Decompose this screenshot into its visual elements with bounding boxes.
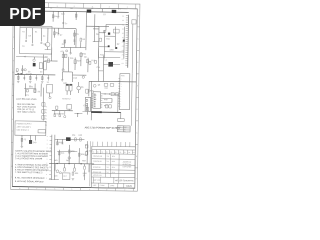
svg-text:A1: A1	[122, 45, 124, 48]
svg-text:B1: B1	[124, 131, 126, 133]
svg-text:SIZE: SIZE	[93, 185, 97, 187]
svg-text:C9: C9	[76, 34, 78, 36]
svg-text:FSCM: FSCM	[100, 185, 105, 187]
svg-text:Q4: Q4	[84, 56, 87, 58]
svg-text:C1: C1	[16, 71, 18, 73]
svg-text:R8: R8	[82, 39, 84, 41]
svg-text:1: 1	[120, 106, 121, 108]
svg-text:USA MADE: USA MADE	[122, 165, 132, 168]
svg-text:A: A	[12, 83, 14, 86]
svg-text:TO SHT 2: TO SHT 2	[62, 98, 70, 100]
svg-text:7/4: 7/4	[106, 167, 108, 169]
svg-text:1: 1	[120, 91, 121, 93]
svg-text:S2: S2	[38, 91, 40, 93]
svg-text:1: 1	[121, 83, 122, 85]
svg-text:9/12: 9/12	[112, 167, 115, 169]
svg-text:R24: R24	[83, 54, 86, 56]
svg-text:3: 3	[46, 166, 47, 168]
svg-text:E3: E3	[83, 175, 85, 177]
svg-text:P2: P2	[45, 106, 47, 108]
svg-text:R13: R13	[100, 54, 103, 56]
svg-text:R1: R1	[110, 152, 112, 154]
svg-text:R1: R1	[35, 31, 37, 33]
svg-text:ASSY 100-220 V: ASSY 100-220 V	[17, 125, 32, 128]
svg-text:R52: R52	[78, 135, 81, 137]
svg-text:F2: F2	[24, 139, 26, 141]
svg-text:APPVD JW: APPVD JW	[93, 174, 102, 177]
svg-text:R1: R1	[106, 152, 108, 154]
svg-text:A1: A1	[122, 28, 124, 31]
svg-text:6: 6	[57, 6, 58, 8]
svg-text:1: 1	[120, 98, 121, 100]
svg-text:1: 1	[120, 93, 121, 95]
svg-text:PN: PN	[124, 127, 126, 129]
svg-text:DWG: DWG	[110, 185, 115, 187]
svg-text:C3: C3	[40, 71, 42, 73]
svg-text:2: 2	[127, 7, 128, 9]
svg-text:7/4: 7/4	[106, 161, 108, 163]
svg-text:C16: C16	[70, 58, 73, 60]
svg-text:A1: A1	[122, 53, 124, 56]
svg-text:A1: A1	[122, 49, 124, 52]
svg-text:Q2: Q2	[117, 44, 120, 46]
svg-text:1: 1	[121, 78, 122, 80]
svg-text:9/12: 9/12	[112, 156, 115, 158]
svg-text:R62: R62	[66, 160, 69, 162]
svg-text:R23: R23	[77, 60, 80, 62]
svg-text:6: 6	[54, 189, 55, 191]
svg-text:3. ALL DIODES ARE 1N4148: 3. ALL DIODES ARE 1N4148	[15, 157, 43, 160]
svg-text:P2: P2	[45, 115, 47, 117]
svg-text:XA1: XA1	[121, 74, 124, 77]
svg-text:SEE TABLE 4 NOTE: SEE TABLE 4 NOTE	[17, 111, 36, 114]
svg-text:2: 2	[124, 190, 125, 192]
svg-text:A1: A1	[122, 32, 124, 35]
svg-text:R61: R61	[54, 160, 57, 162]
svg-text:R1: R1	[101, 152, 103, 154]
svg-text:R1: R1	[133, 152, 135, 154]
svg-text:NO. 123 SCHEMATIC: NO. 123 SCHEMATIC	[115, 179, 134, 182]
svg-text:5: 5	[74, 6, 75, 8]
svg-text:R5: R5	[56, 113, 58, 115]
svg-text:B: B	[13, 60, 15, 62]
svg-text:E1: E1	[85, 145, 87, 147]
svg-text:C21: C21	[61, 14, 64, 16]
svg-text:P2: P2	[45, 118, 47, 120]
svg-text:R15: R15	[92, 60, 95, 62]
svg-text:S1: S1	[22, 46, 24, 48]
svg-text:A1: A1	[121, 62, 123, 65]
svg-text:3: 3	[47, 147, 48, 149]
svg-text:R7: R7	[60, 35, 62, 37]
svg-text:3: 3	[47, 140, 48, 142]
svg-text:A1: A1	[122, 19, 124, 22]
svg-text:R21: R21	[61, 51, 64, 53]
svg-text:1: 1	[120, 96, 121, 98]
svg-text:R1: R1	[115, 152, 117, 154]
svg-text:R6: R6	[61, 114, 63, 116]
svg-text:C4: C4	[43, 36, 45, 38]
svg-text:R41: R41	[105, 88, 108, 90]
svg-text:U4: U4	[47, 82, 49, 84]
svg-text:R4: R4	[55, 16, 57, 18]
svg-text:A: A	[11, 176, 13, 179]
svg-text:C40: C40	[33, 142, 36, 144]
svg-text:R63: R63	[82, 160, 85, 162]
svg-text:D4: D4	[45, 57, 47, 59]
svg-text:J1: J1	[50, 8, 52, 10]
svg-text:8. ALL VOLTAGES MEASURED: 8. ALL VOLTAGES MEASURED	[15, 176, 45, 179]
svg-text:C18: C18	[73, 78, 76, 80]
svg-text:P1: P1	[118, 9, 120, 11]
svg-text:R65: R65	[75, 173, 78, 175]
svg-text:SEE SHEET 2: SEE SHEET 2	[17, 130, 29, 132]
svg-text:SCALE AB: SCALE AB	[93, 171, 102, 174]
svg-text:1: 1	[120, 101, 121, 103]
svg-text:QTY: QTY	[118, 127, 121, 129]
svg-text:E2: E2	[85, 155, 87, 157]
svg-text:3: 3	[106, 189, 107, 191]
svg-text:R55: R55	[71, 151, 74, 153]
svg-text:A1: A1	[122, 15, 124, 18]
svg-text:R1: R1	[119, 152, 121, 154]
svg-text:C31: C31	[83, 105, 86, 107]
svg-text:A1: A1	[122, 36, 124, 39]
svg-text:DRAWN AB: DRAWN AB	[93, 155, 103, 158]
svg-text:AMP 1200: AMP 1200	[93, 179, 101, 182]
svg-text:CHECK AB: CHECK AB	[93, 160, 102, 163]
svg-text:3: 3	[47, 136, 48, 138]
svg-text:R1: R1	[97, 152, 99, 154]
svg-text:3: 3	[46, 178, 47, 180]
svg-text:C7: C7	[65, 23, 67, 25]
svg-text:Q6: Q6	[98, 85, 101, 87]
svg-text:R43: R43	[104, 99, 107, 101]
svg-text:71629: 71629	[126, 186, 133, 188]
svg-text:R11: R11	[106, 38, 109, 40]
svg-text:3: 3	[109, 6, 110, 8]
svg-text:C3: C3	[103, 14, 105, 16]
svg-text:R1: R1	[124, 152, 126, 154]
svg-text:ENGR AB: ENGR AB	[93, 166, 101, 169]
svg-text:3: 3	[47, 144, 48, 146]
svg-text:R1: R1	[128, 152, 130, 154]
svg-text:C5: C5	[45, 45, 47, 47]
svg-text:3: 3	[46, 159, 47, 161]
svg-text:9. WITH NO SIGNAL APPLIED: 9. WITH NO SIGNAL APPLIED	[15, 180, 44, 183]
svg-text:C2: C2	[28, 71, 30, 73]
svg-text:C45: C45	[54, 175, 57, 177]
svg-text:F1: F1	[29, 86, 31, 88]
svg-text:1: 1	[120, 103, 121, 105]
svg-text:R51: R51	[72, 135, 75, 137]
svg-text:K1: K1	[22, 31, 24, 33]
svg-text:7. SEE PARTS LIST TABLE 2: 7. SEE PARTS LIST TABLE 2	[15, 171, 43, 174]
svg-text:C8: C8	[96, 34, 98, 36]
svg-text:P2: P2	[45, 112, 47, 114]
svg-text:R44: R44	[104, 105, 107, 107]
svg-text:7: 7	[36, 188, 37, 190]
svg-text:A1: A1	[122, 58, 124, 61]
svg-text:C14: C14	[96, 67, 99, 69]
svg-text:TP1: TP1	[25, 95, 28, 97]
svg-text:7/4: 7/4	[106, 156, 108, 158]
svg-text:8: 8	[19, 188, 20, 190]
svg-text:POWER SUPPLY: POWER SUPPLY	[17, 123, 33, 125]
svg-text:L1: L1	[105, 59, 107, 61]
svg-text:1: 1	[121, 88, 122, 90]
svg-text:OUT: OUT	[63, 176, 67, 178]
svg-text:1: 1	[121, 86, 122, 88]
svg-text:R2: R2	[70, 8, 72, 10]
svg-text:LAST REF DES USED: LAST REF DES USED	[16, 98, 37, 101]
svg-text:C2: C2	[28, 35, 30, 37]
svg-text:9/12: 9/12	[112, 161, 115, 163]
svg-text:ABC 1200 POWER AMP SCHEM: ABC 1200 POWER AMP SCHEM	[85, 126, 121, 129]
svg-text:3: 3	[46, 170, 47, 172]
svg-text:B: B	[11, 154, 13, 156]
svg-text:J2: J2	[91, 8, 93, 10]
svg-text:4: 4	[89, 189, 90, 191]
svg-text:T2: T2	[24, 56, 26, 58]
svg-text:9/12: 9/12	[112, 172, 115, 174]
svg-text:R1: R1	[92, 151, 94, 153]
svg-text:D2: D2	[62, 44, 64, 46]
svg-text:P2: P2	[45, 109, 47, 111]
svg-text:C41: C41	[61, 153, 64, 155]
svg-text:7/4: 7/4	[106, 172, 108, 174]
svg-text:Q5: Q5	[81, 87, 84, 89]
svg-text:CR3: CR3	[110, 50, 114, 52]
svg-text:5: 5	[71, 189, 72, 191]
svg-text:3: 3	[46, 174, 47, 176]
